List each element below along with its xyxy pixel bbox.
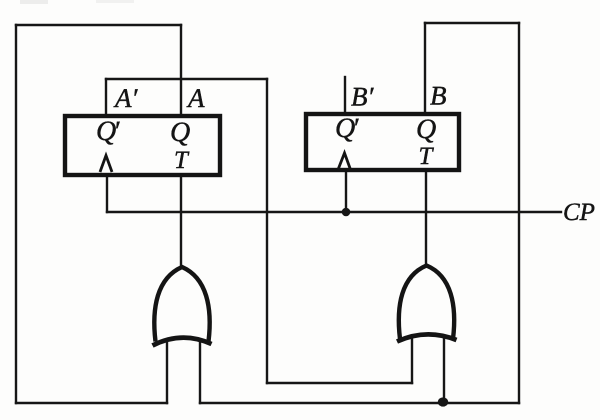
svg-text:T: T bbox=[419, 143, 435, 170]
wire OR2 right input from bottom line bbox=[443, 336, 445, 403]
node junction dot CP to FF2 clock bbox=[342, 208, 351, 217]
svg-text:A: A bbox=[186, 83, 205, 113]
node junction dot bottom line to OR2 input bbox=[438, 397, 449, 406]
wire FF2 T input from OR2 output bbox=[425, 172, 427, 266]
wire FF1 clock input down to CP bbox=[106, 176, 108, 212]
wire OR1 left input up bbox=[166, 340, 168, 403]
flip-flop U1 box (T flip-flop A) bbox=[65, 116, 220, 175]
clock input triangle FF2 bbox=[338, 153, 352, 171]
wire bottom-left horizontal to OR1 bbox=[16, 402, 167, 404]
wire A-prime horizontal right bbox=[106, 78, 267, 80]
wire OR1 right input up bbox=[199, 340, 201, 403]
or-gate G2 bbox=[397, 266, 457, 342]
wire mid vertical down (A-prime feed) bbox=[266, 79, 268, 383]
svg-text:B: B bbox=[430, 81, 447, 111]
wire top-left horizontal (A feedback) bbox=[16, 24, 181, 26]
wire node A-prime output up from FF1 Q-prime bbox=[105, 79, 107, 114]
wire CP horizontal line bbox=[107, 211, 561, 213]
wire bottom-right horizontal to OR1 bbox=[200, 402, 519, 404]
svg-text:Q′: Q′ bbox=[335, 113, 359, 144]
or-gate G1 bbox=[153, 267, 212, 346]
clock input triangle FF1 bbox=[100, 156, 112, 173]
wire node B-prime stub from FF2 Q-prime bbox=[344, 77, 346, 112]
flip-flop U2 box (T flip-flop B) bbox=[306, 114, 459, 170]
svg-text:T: T bbox=[174, 147, 190, 174]
wire node A output up from FF1 Q bbox=[180, 25, 182, 114]
wire left rail down bbox=[15, 25, 17, 403]
wire right rail down bbox=[518, 23, 520, 403]
wire OR2 left input up bbox=[411, 338, 413, 383]
wire FF2 clock input from CP bbox=[345, 172, 347, 212]
wire node B output up from FF2 Q bbox=[424, 23, 426, 112]
svg-text:B′: B′ bbox=[351, 82, 374, 112]
svg-text:Q: Q bbox=[416, 114, 436, 145]
svg-text:Q′: Q′ bbox=[96, 116, 120, 147]
svg-text:Q: Q bbox=[170, 117, 190, 148]
wire top-right horizontal (B feedback) bbox=[425, 22, 519, 24]
svg-text:CP: CP bbox=[563, 199, 595, 226]
svg-text:A′: A′ bbox=[113, 83, 138, 113]
wire lower horizontal to OR2 bbox=[267, 382, 412, 384]
wire FF1 T input from OR1 output bbox=[180, 176, 182, 267]
